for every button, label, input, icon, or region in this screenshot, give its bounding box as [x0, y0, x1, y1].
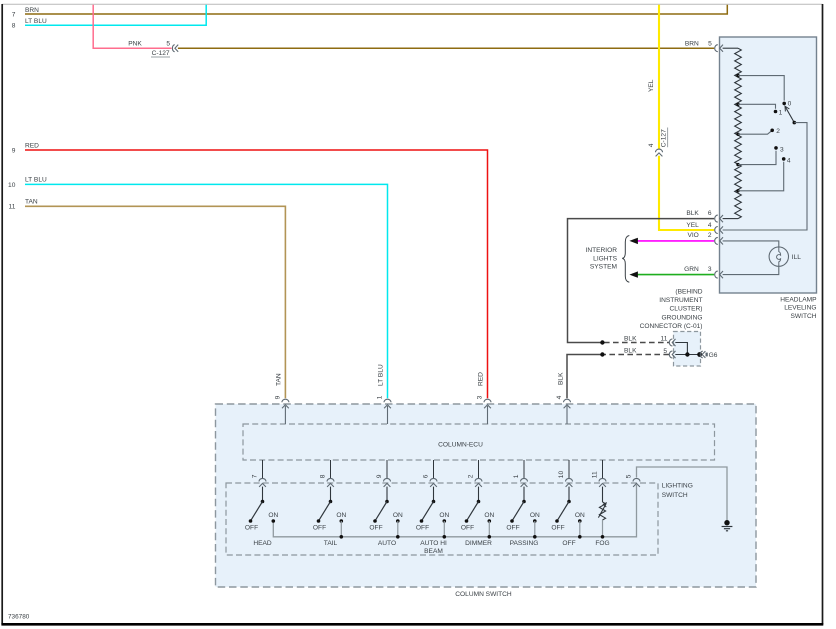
svg-text:1: 1: [779, 110, 783, 117]
ground: [722, 520, 733, 531]
svg-text:LEVELING: LEVELING: [784, 305, 816, 312]
svg-text:7: 7: [252, 474, 259, 478]
svg-text:INSTRUMENT: INSTRUMENT: [659, 297, 702, 304]
wire BRN to headlamp leveling switch pin 5: [178, 41, 714, 49]
svg-text:7: 7: [12, 11, 16, 18]
entry pin 9: [275, 395, 289, 424]
svg-text:1: 1: [513, 474, 520, 478]
svg-text:OFF: OFF: [506, 525, 519, 532]
svg-text:10: 10: [8, 182, 16, 189]
entry pin 1: [377, 395, 391, 424]
svg-text:TAN: TAN: [276, 373, 283, 386]
svg-text:BRN: BRN: [25, 7, 39, 14]
grounding connector label: [640, 288, 703, 330]
wire 11 TAN: [9, 199, 286, 399]
svg-text:3: 3: [780, 146, 784, 153]
svg-text:11: 11: [592, 471, 599, 478]
svg-text:BLK: BLK: [624, 348, 637, 355]
svg-text:11: 11: [9, 204, 16, 211]
svg-text:5: 5: [708, 41, 712, 48]
svg-text:ON: ON: [439, 512, 449, 519]
selector contacts 0-4: [770, 101, 791, 165]
lighting switch pin numbers: [252, 471, 633, 479]
svg-text:9: 9: [376, 474, 383, 478]
grounding connector C-01 internals: [669, 339, 699, 358]
svg-text:LIGHTING: LIGHTING: [662, 483, 693, 490]
column-ecu box: [243, 424, 715, 460]
svg-text:0: 0: [788, 101, 792, 108]
svg-text:3: 3: [708, 266, 712, 273]
ground lead G6: [700, 351, 718, 359]
wire BLK C-01 pin 5 to column switch pin 4: [557, 348, 669, 399]
wire 7 BRN: [12, 5, 728, 19]
svg-text:ON: ON: [268, 512, 278, 519]
svg-text:2: 2: [708, 232, 712, 239]
svg-text:LT BLU: LT BLU: [25, 177, 47, 184]
svg-text:BRN: BRN: [685, 41, 699, 48]
svg-text:ILL: ILL: [792, 254, 801, 261]
svg-text:ON: ON: [530, 512, 540, 519]
svg-text:5: 5: [663, 348, 667, 355]
svg-text:AUTO: AUTO: [378, 540, 396, 547]
grounding connector C-01 box: [674, 332, 701, 367]
selector wiper arm: [723, 106, 807, 230]
svg-text:4: 4: [787, 157, 791, 164]
svg-text:OFF: OFF: [313, 525, 326, 532]
svg-text:BLK: BLK: [624, 335, 637, 342]
headlamp leveling switch label: [780, 296, 817, 319]
svg-text:INTERIOR: INTERIOR: [585, 247, 617, 254]
lighting switch box: [226, 483, 658, 555]
svg-text:RED: RED: [478, 372, 485, 386]
svg-text:4: 4: [556, 395, 563, 399]
fog variable resistor pin 11: [595, 487, 609, 547]
switch 7 (HEAD): [245, 487, 279, 547]
svg-text:5: 5: [626, 474, 633, 478]
svg-text:8: 8: [320, 474, 327, 478]
ecu-to-switch wires: [263, 460, 603, 478]
ON bus wire: [273, 484, 636, 537]
svg-text:736780: 736780: [8, 614, 30, 621]
svg-text:RED: RED: [25, 142, 39, 149]
svg-text:OFF: OFF: [562, 540, 575, 547]
resistor taps: [736, 74, 784, 193]
svg-text:DIMMER: DIMMER: [465, 540, 492, 547]
svg-text:C-127: C-127: [661, 129, 668, 147]
svg-text:LIGHTS: LIGHTS: [593, 255, 617, 262]
interior lights system label: [585, 236, 629, 283]
svg-text:8: 8: [12, 23, 16, 30]
switch 1 (PASSING): [506, 487, 540, 547]
inline connector C-127 (pin 5): [172, 45, 178, 52]
switch 6 (AUTO HI BEAM): [416, 487, 450, 556]
resistor ladder R1: [723, 48, 742, 218]
svg-text:ON: ON: [575, 512, 585, 519]
svg-text:YEL: YEL: [648, 79, 655, 92]
svg-text:3: 3: [477, 395, 484, 399]
svg-text:11: 11: [661, 336, 668, 343]
svg-text:FOG: FOG: [595, 540, 609, 547]
svg-text:PNK: PNK: [128, 41, 142, 48]
pin 5 wire to ground: [637, 467, 728, 521]
svg-text:HEADLAMP: HEADLAMP: [780, 296, 817, 303]
switch 9 (AUTO): [369, 487, 403, 547]
svg-text:BEAM: BEAM: [424, 548, 443, 555]
entry pin 4: [556, 395, 570, 424]
wire GRN to interior lights: [629, 266, 714, 278]
svg-text:10: 10: [558, 471, 565, 479]
svg-text:C-127: C-127: [152, 50, 170, 57]
wire YEL from top: [648, 5, 714, 230]
switch 8 (TAIL): [313, 487, 347, 547]
svg-text:BLK: BLK: [686, 210, 699, 217]
svg-text:6: 6: [708, 210, 712, 217]
wire 9 RED: [12, 142, 488, 398]
svg-text:(BEHIND: (BEHIND: [675, 288, 702, 295]
svg-text:9: 9: [275, 395, 282, 399]
svg-text:ON: ON: [393, 512, 403, 519]
lighting switch connectors: [259, 478, 640, 487]
svg-text:1: 1: [377, 395, 384, 399]
svg-text:OFF: OFF: [369, 525, 382, 532]
wire PNK from top: [93, 5, 171, 48]
svg-text:5: 5: [166, 40, 170, 47]
svg-text:G6: G6: [709, 352, 718, 359]
inline connector C-127 (pin 4) on YEL: [656, 149, 663, 156]
svg-text:GRN: GRN: [684, 266, 699, 273]
svg-text:AUTO HI: AUTO HI: [420, 540, 447, 547]
wire 8 LT BLU: [12, 5, 206, 30]
svg-text:SYSTEM: SYSTEM: [590, 264, 617, 271]
svg-text:2: 2: [776, 128, 780, 135]
svg-text:CLUSTER): CLUSTER): [670, 306, 703, 313]
entry pin 3: [477, 395, 491, 424]
svg-text:TAN: TAN: [25, 199, 38, 206]
svg-text:HEAD: HEAD: [253, 540, 272, 547]
svg-text:OFF: OFF: [245, 525, 258, 532]
headlamp box pin connectors: [715, 45, 723, 279]
brace: [622, 236, 629, 283]
switch 10 (OFF): [551, 487, 585, 547]
wire BLK pin6 to C-01 pin 11: [568, 210, 715, 345]
wire VIO to interior lights: [629, 232, 714, 244]
wire 10 LT BLU: [8, 177, 387, 399]
svg-text:LT BLU: LT BLU: [378, 364, 385, 386]
switch 2 (DIMMER): [461, 487, 495, 547]
svg-text:YEL: YEL: [686, 222, 699, 229]
svg-text:PASSING: PASSING: [510, 540, 539, 547]
svg-text:9: 9: [12, 147, 16, 154]
svg-text:CONNECTOR (C-01): CONNECTOR (C-01): [640, 323, 703, 330]
headlamp leveling switch box: [720, 37, 817, 293]
ILL lamp: [723, 241, 802, 275]
svg-text:LT BLU: LT BLU: [25, 18, 47, 25]
svg-text:ON: ON: [484, 512, 494, 519]
svg-text:VIO: VIO: [687, 232, 698, 239]
svg-text:SWITCH: SWITCH: [662, 492, 688, 499]
svg-text:4: 4: [708, 222, 712, 229]
svg-text:SWITCH: SWITCH: [790, 313, 816, 320]
svg-text:BLK: BLK: [557, 372, 564, 385]
svg-text:6: 6: [423, 474, 430, 478]
svg-text:OFF: OFF: [461, 525, 474, 532]
svg-text:COLUMN-ECU: COLUMN-ECU: [438, 442, 483, 449]
svg-text:OFF: OFF: [416, 525, 429, 532]
svg-text:ON: ON: [336, 512, 346, 519]
svg-text:COLUMN SWITCH: COLUMN SWITCH: [455, 591, 512, 598]
svg-text:OFF: OFF: [551, 525, 564, 532]
svg-text:2: 2: [468, 474, 475, 478]
column switch box: [216, 404, 757, 587]
svg-text:TAIL: TAIL: [324, 540, 338, 547]
svg-text:GROUNDING: GROUNDING: [661, 314, 702, 321]
svg-text:4: 4: [648, 143, 655, 147]
